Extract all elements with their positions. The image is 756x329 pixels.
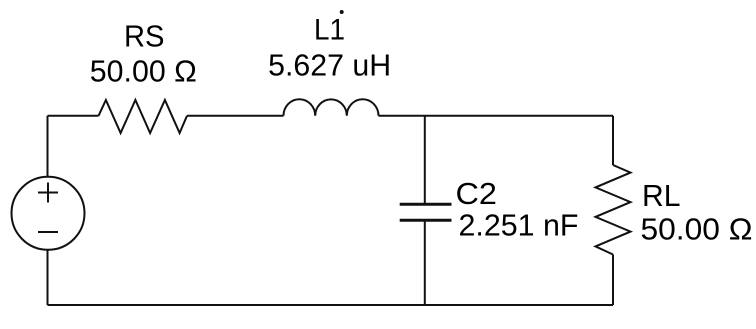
wire bottom rail (48, 304, 614, 306)
svg-text:50.00 Ω: 50.00 Ω (90, 53, 197, 88)
voltage source V1 circle (12, 177, 85, 250)
capacitor C2 top plate (400, 203, 452, 206)
capacitor C2 bottom plate (400, 219, 452, 222)
svg-text:RS: RS (124, 19, 165, 54)
svg-text:L1: L1 (314, 14, 345, 47)
wire right rail upper (612, 116, 614, 165)
wire top-left horizontal (48, 115, 99, 117)
resistor RS (99, 100, 188, 133)
svg-text:50.00 Ω: 50.00 Ω (641, 212, 753, 247)
inductor L1 (284, 99, 379, 116)
wire capacitor branch upper (424, 116, 426, 204)
label L1 dot marker (340, 10, 344, 14)
wire L1 to node and top-right (379, 115, 614, 117)
voltage source plus sign (38, 183, 58, 203)
resistor RL (596, 165, 631, 255)
wire left rail lower (47, 249, 49, 305)
svg-text:2.251 nF: 2.251 nF (459, 208, 579, 243)
svg-text:5.627 uH: 5.627 uH (268, 47, 391, 82)
svg-text:RL: RL (642, 178, 681, 213)
wire left rail upper (47, 116, 49, 178)
wire right rail lower (612, 255, 614, 306)
wire capacitor branch lower (424, 221, 426, 305)
wire RS to L1 (187, 115, 284, 117)
svg-text:C2: C2 (456, 176, 498, 211)
voltage source minus sign (38, 231, 58, 233)
